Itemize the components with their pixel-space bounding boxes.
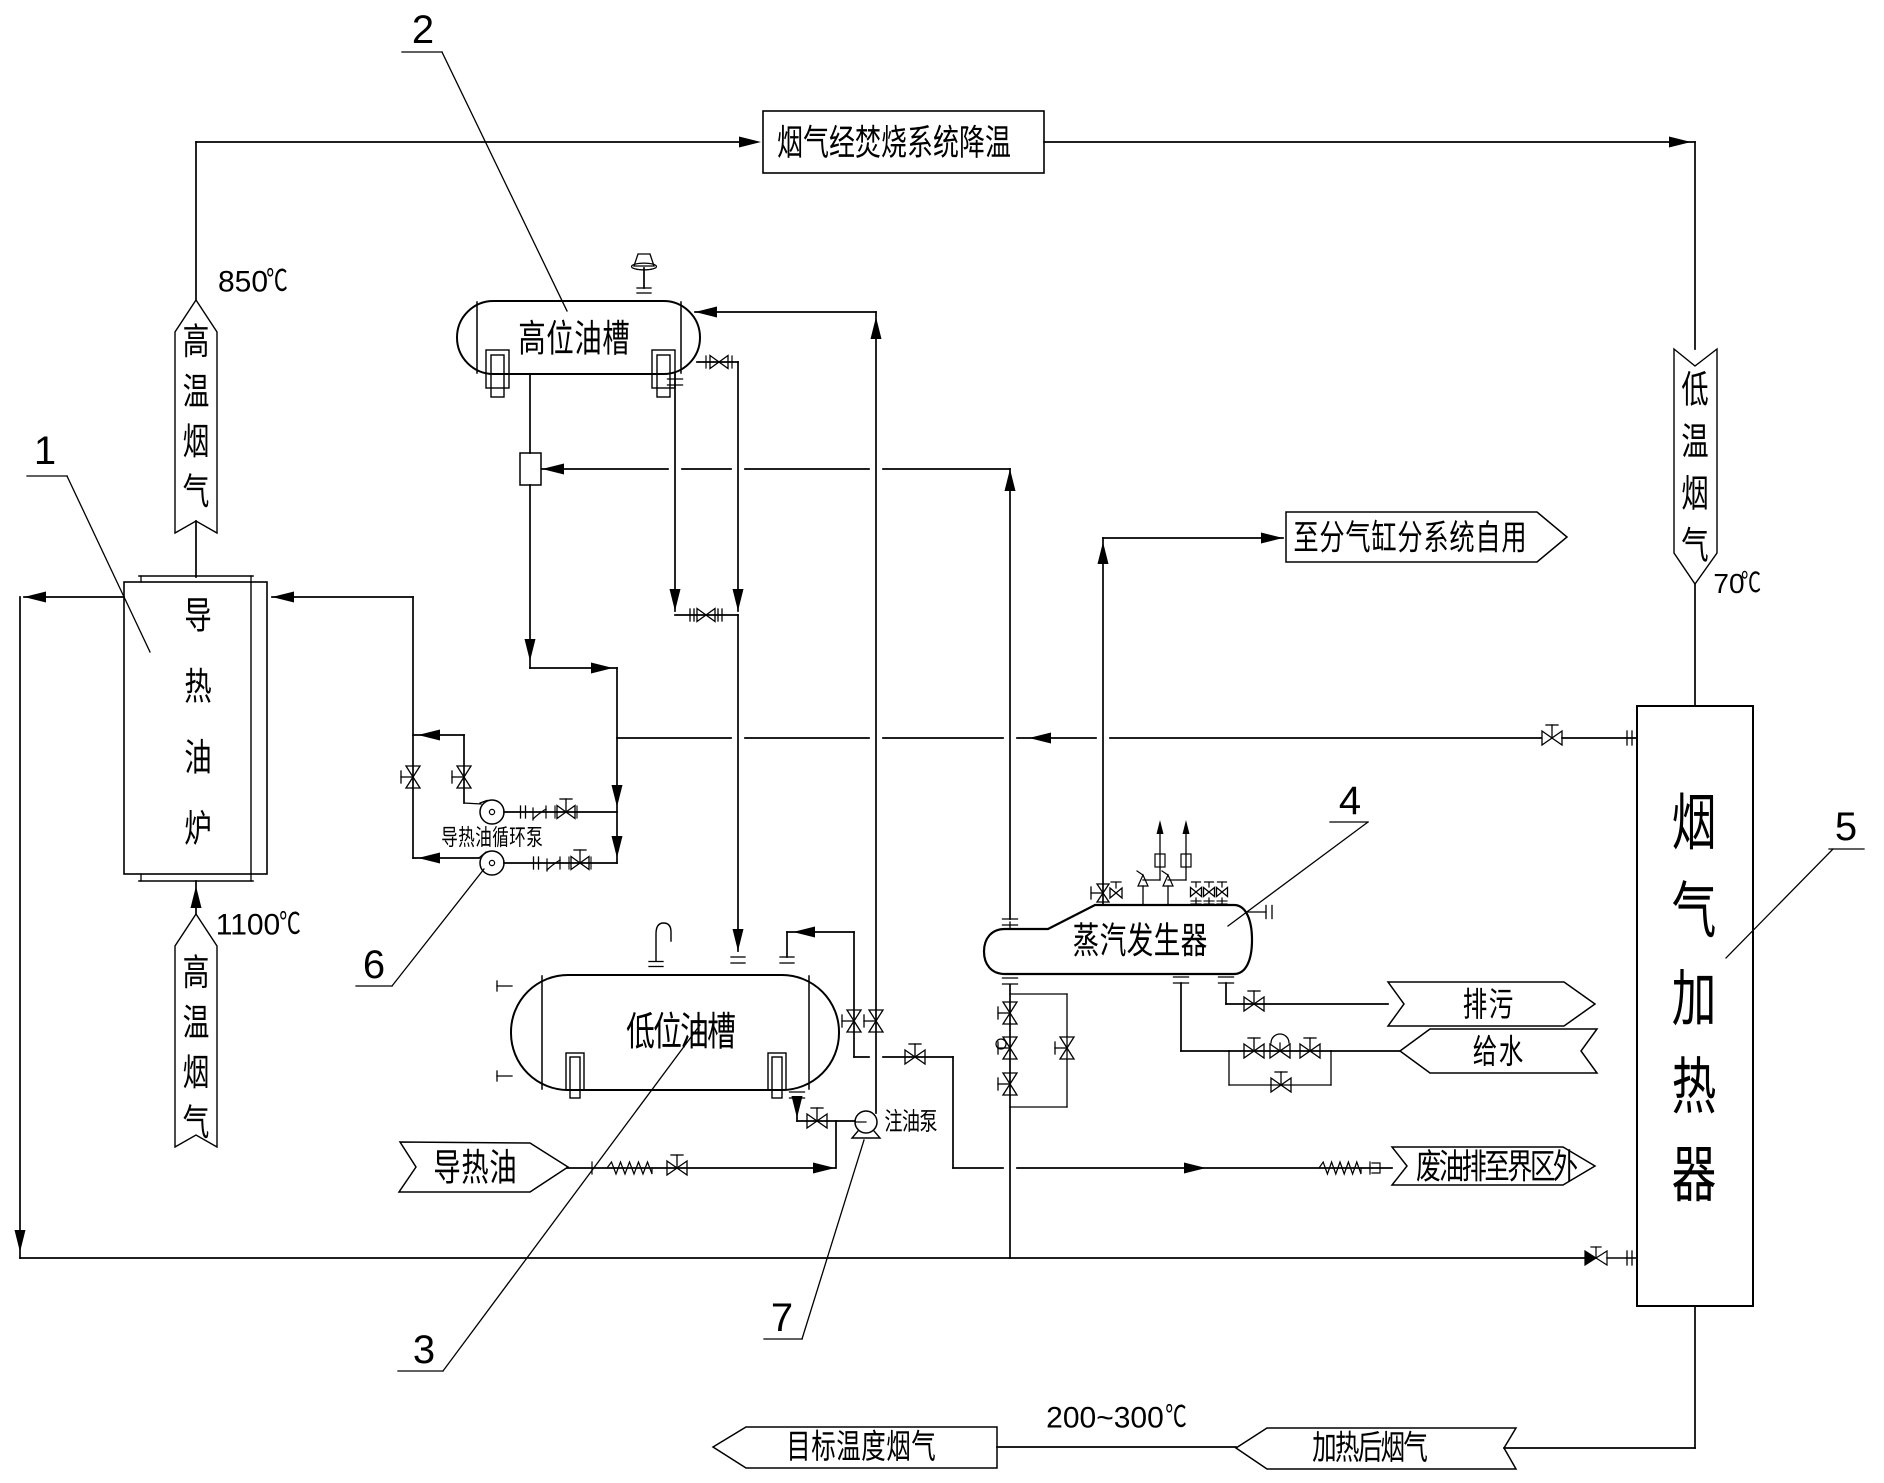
svg-text:6: 6 [363,943,385,987]
svg-text:850: 850 [218,266,268,299]
svg-text:1: 1 [34,429,56,473]
svg-text:70: 70 [1713,568,1744,599]
svg-text:5: 5 [1835,805,1857,849]
svg-text:7: 7 [771,1296,793,1340]
svg-text:2: 2 [412,8,434,52]
svg-text:1100: 1100 [216,909,281,942]
svg-text:3: 3 [413,1328,435,1372]
svg-text:200~300: 200~300 [1046,1402,1164,1435]
svg-text:4: 4 [1339,779,1361,823]
